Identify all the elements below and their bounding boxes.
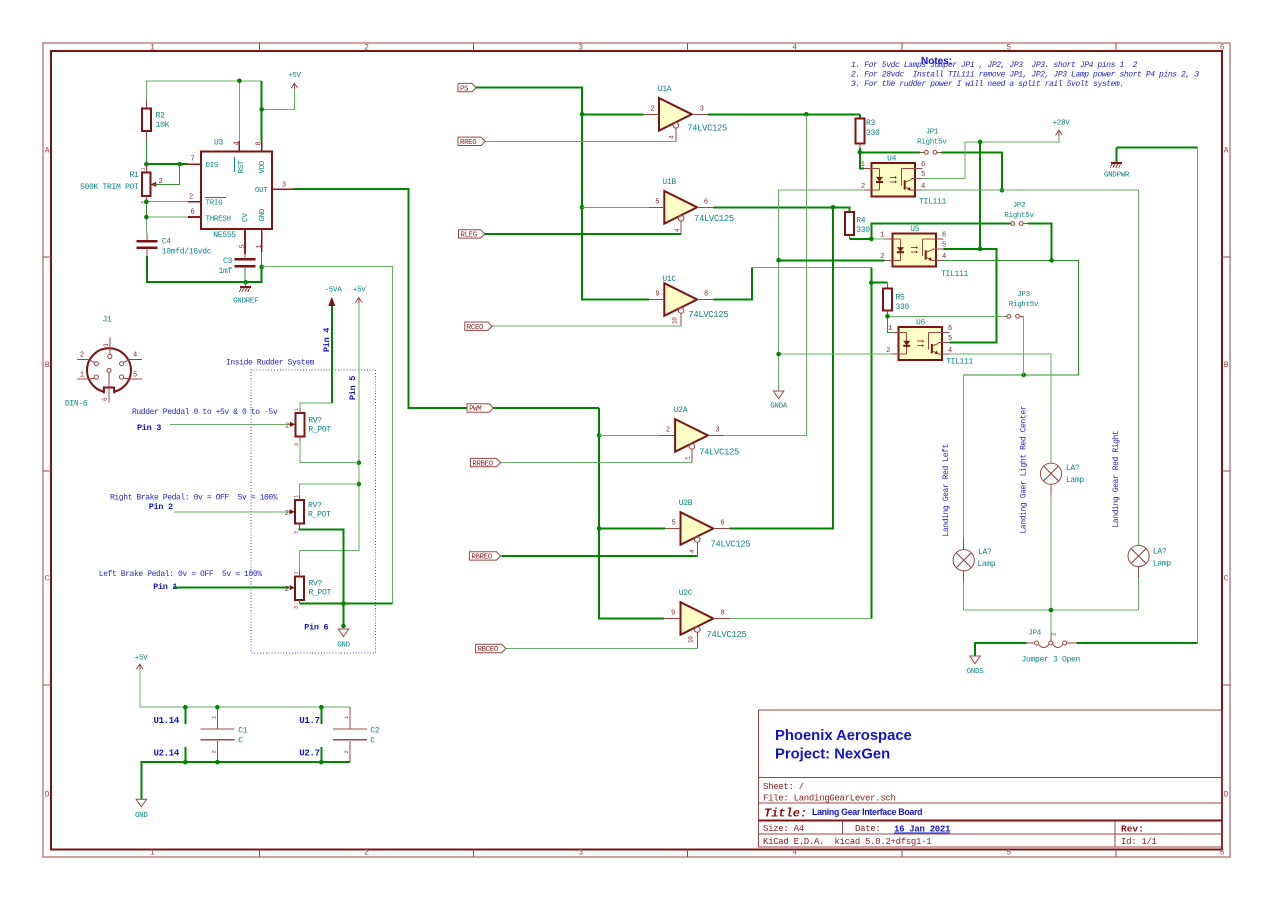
junction GNDA U5 xyxy=(776,258,781,263)
lamp LA? left xyxy=(953,375,996,610)
svg-text:1mf: 1mf xyxy=(218,267,232,276)
svg-text:A: A xyxy=(45,147,50,156)
svg-text:GND: GND xyxy=(259,208,267,221)
power +28V xyxy=(1053,120,1071,137)
svg-text:7: 7 xyxy=(191,156,195,164)
wire JP2 to U5 pin4 xyxy=(1028,224,1052,261)
svg-text:U1.14: U1.14 xyxy=(153,716,179,726)
title block xyxy=(759,710,1223,847)
hier label RREG xyxy=(458,137,485,145)
svg-text:R1: R1 xyxy=(129,171,139,180)
wire U2A out xyxy=(724,114,806,435)
svg-text:2: 2 xyxy=(189,194,193,202)
svg-text:2: 2 xyxy=(861,183,865,191)
svg-text:Lamp: Lamp xyxy=(1066,476,1085,485)
svg-text:2: 2 xyxy=(364,849,369,858)
svg-text:Pin 5: Pin 5 xyxy=(348,376,358,400)
svg-text:R_POT: R_POT xyxy=(308,426,331,435)
wire U2B input xyxy=(599,528,665,530)
wire GNDPWR to JP4 xyxy=(1117,148,1198,643)
wire lamps bottom rail xyxy=(964,610,1139,637)
notes text block xyxy=(851,56,1199,89)
svg-text:4: 4 xyxy=(133,352,137,360)
wire -5VA to pot1 xyxy=(331,306,333,403)
svg-text:330: 330 xyxy=(856,226,870,235)
trimmer R1 500K xyxy=(80,164,163,204)
junction DIS-R2-R1 xyxy=(144,162,149,167)
jumper JP2 xyxy=(1004,202,1034,225)
junction C3 gnd xyxy=(259,265,264,270)
lamp LA? right xyxy=(1128,534,1171,610)
power GNDA xyxy=(770,391,788,411)
dotted box Inside Rudder System xyxy=(251,370,376,653)
svg-text:U4: U4 xyxy=(887,155,897,164)
jumper JP4 xyxy=(1022,630,1081,665)
wire C4 to gnd rail xyxy=(147,256,262,282)
wire U2B out xyxy=(730,207,833,528)
svg-text:3: 3 xyxy=(578,849,583,858)
svg-text:4: 4 xyxy=(792,44,797,53)
svg-text:2: 2 xyxy=(651,106,655,114)
svg-text:C4: C4 xyxy=(162,238,172,247)
svg-text:RST: RST xyxy=(238,160,246,173)
svg-text:U1B: U1B xyxy=(662,178,676,187)
label U2.7 xyxy=(299,747,321,762)
junction GNDREF tap xyxy=(243,280,248,285)
svg-text:Laning Gear Interface Board: Laning Gear Interface Board xyxy=(812,807,922,817)
svg-text:GNDS: GNDS xyxy=(967,668,985,676)
wire U5col to R5 xyxy=(871,282,887,284)
capacitor C1 xyxy=(200,707,247,762)
svg-text:+5V: +5V xyxy=(135,655,148,663)
junction 555 VDD +5V xyxy=(259,107,264,112)
wire Pin2 to pot2 wiper xyxy=(174,511,290,513)
frame column ticks xyxy=(258,43,260,51)
svg-text:THRESH: THRESH xyxy=(206,215,231,223)
buffer U2A 74LVC125 xyxy=(659,406,739,463)
wire 555 top net xyxy=(146,81,294,141)
svg-text:Left Brake Pedal: 0v = OFF 5v: Left Brake Pedal: 0v = OFF 5v = 100% xyxy=(99,570,262,579)
wire U5 column vertical xyxy=(870,267,872,618)
svg-text:R4: R4 xyxy=(856,217,866,226)
capacitor C2 xyxy=(333,707,380,762)
svg-text:Pin 2: Pin 2 xyxy=(149,502,173,512)
hier label RBREO xyxy=(469,552,500,560)
wire R3 bottom net xyxy=(860,148,920,169)
svg-text:2. For 28vdc Install TIL111 r: 2. For 28vdc Install TIL111 remove JP1, … xyxy=(851,71,1199,80)
svg-text:+5V: +5V xyxy=(353,287,366,295)
svg-text:Sheet: /: Sheet: / xyxy=(763,782,804,792)
svg-text:LA?: LA? xyxy=(1066,464,1080,473)
svg-text:U2B: U2B xyxy=(679,499,693,508)
wire U2A input xyxy=(599,434,659,436)
svg-text:R_POT: R_POT xyxy=(309,589,332,598)
svg-text:3: 3 xyxy=(294,531,300,534)
svg-text:74LVC125: 74LVC125 xyxy=(711,540,751,550)
wire R2 to DIS xyxy=(146,140,188,164)
svg-text:U1A: U1A xyxy=(658,85,672,94)
wire JP3 down xyxy=(1023,316,1025,375)
svg-text:6: 6 xyxy=(1220,44,1225,53)
svg-text:Id: 1/1: Id: 1/1 xyxy=(1121,837,1157,847)
junction PS U1A xyxy=(580,112,585,117)
svg-text:1. For 5vdc Lamps Jumper JP1 ,: 1. For 5vdc Lamps Jumper JP1 , JP2, JP3 … xyxy=(851,61,1138,70)
svg-text:U2.14: U2.14 xyxy=(153,749,179,759)
svg-text:J1: J1 xyxy=(103,316,113,325)
svg-text:5: 5 xyxy=(655,199,659,207)
svg-text:RV?: RV? xyxy=(308,417,322,426)
svg-text:74LVC125: 74LVC125 xyxy=(694,214,734,224)
junction PWM U2A xyxy=(597,433,602,438)
wire Pin1 to pot3 wiper xyxy=(173,587,289,589)
junction U4 pin4 column xyxy=(1000,188,1005,193)
svg-text:4: 4 xyxy=(233,142,241,146)
wire RBCEO net xyxy=(506,648,698,650)
wire +5V pots vertical xyxy=(300,303,359,571)
svg-text:U2A: U2A xyxy=(674,406,688,415)
wire U1C out to U5 column xyxy=(752,266,871,268)
power +5V (bottom) xyxy=(135,655,148,671)
svg-text:3. For the rudder power I will: 3. For the rudder power I will need a sp… xyxy=(851,80,1124,89)
label U1.14 xyxy=(153,707,185,726)
svg-text:File: LandingGearLever.sch: File: LandingGearLever.sch xyxy=(763,794,896,804)
svg-text:Right5v: Right5v xyxy=(1004,212,1034,220)
wire U1B input xyxy=(582,206,649,208)
junction pot2 top xyxy=(357,482,362,487)
buffer U2B 74LVC125 xyxy=(665,499,750,556)
svg-text:74LVC125: 74LVC125 xyxy=(688,310,728,320)
svg-text:C: C xyxy=(238,737,243,746)
svg-text:KiCad E.D.A. kicad 5.0.2+dfsg: KiCad E.D.A. kicad 5.0.2+dfsg1-1 xyxy=(763,837,931,847)
junction +28V column xyxy=(978,140,983,145)
lamp LA? center xyxy=(1040,463,1084,610)
svg-text:Landing Gaer Light Red Center: Landing Gaer Light Red Center xyxy=(1020,405,1029,533)
svg-text:9: 9 xyxy=(671,610,675,618)
svg-text:Inside Rudder System: Inside Rudder System xyxy=(226,359,315,368)
svg-text:5: 5 xyxy=(948,335,952,343)
svg-text:RLEG: RLEG xyxy=(461,232,477,240)
hier label PWM xyxy=(467,404,493,412)
junction R5 JP3 U6 xyxy=(885,314,890,319)
wire R5 bottom net xyxy=(888,315,1005,333)
svg-text:8: 8 xyxy=(721,610,725,618)
svg-text:DIN-6: DIN-6 xyxy=(65,400,88,409)
wire U1A input xyxy=(582,113,643,115)
svg-text:6: 6 xyxy=(720,520,724,528)
wire U5 pin2 GNDA net xyxy=(779,259,885,261)
svg-text:1: 1 xyxy=(80,372,84,380)
label U2.14 xyxy=(153,747,185,762)
svg-text:330: 330 xyxy=(866,129,880,138)
svg-text:R_POT: R_POT xyxy=(308,511,331,520)
svg-text:8: 8 xyxy=(256,142,264,146)
wire U2C out xyxy=(730,618,871,620)
junction U5 pin5 xyxy=(978,247,983,252)
svg-text:1: 1 xyxy=(294,408,300,411)
wire U4 pin4 to right lamp xyxy=(922,190,1139,534)
wire pot1 bottom xyxy=(300,441,359,463)
svg-text:2: 2 xyxy=(343,750,350,753)
svg-text:JP3: JP3 xyxy=(1017,291,1030,299)
wire pot2 top xyxy=(300,484,359,495)
wire RLEG net xyxy=(485,233,682,235)
svg-text:RV?: RV? xyxy=(308,502,322,511)
wire THRESH net xyxy=(146,217,188,233)
svg-text:Pin 3: Pin 3 xyxy=(137,423,161,433)
wire +28V net xyxy=(922,137,1059,249)
resistor R3 xyxy=(855,114,880,148)
wire PS net xyxy=(476,88,650,300)
junction TRIG xyxy=(144,199,149,204)
resistor R4 xyxy=(845,207,871,239)
wire U6 pin2 GNDA net xyxy=(779,353,891,355)
buffer U1B 74LVC125 xyxy=(649,178,734,234)
buffer U1C 74LVC125 xyxy=(649,275,728,326)
junction rail U1.14 xyxy=(183,705,188,710)
connector M1 DIN-6 xyxy=(65,316,142,409)
svg-text:1: 1 xyxy=(256,245,264,249)
svg-text:2: 2 xyxy=(285,586,289,594)
resistor R5 xyxy=(883,283,910,315)
svg-text:10: 10 xyxy=(687,636,694,643)
svg-text:500K TRIM POT: 500K TRIM POT xyxy=(80,183,139,192)
svg-text:R2: R2 xyxy=(156,112,166,121)
junction THRESH xyxy=(144,215,149,220)
buffer U1A 74LVC125 xyxy=(643,85,727,141)
wire R1 wiper to DIS xyxy=(154,164,180,184)
junction 555 RST xyxy=(237,79,242,84)
power GNDREF xyxy=(233,282,258,305)
svg-text:Lamp: Lamp xyxy=(1153,560,1172,569)
svg-text:2: 2 xyxy=(364,44,369,53)
svg-text:Phoenix Aerospace: Phoenix Aerospace xyxy=(775,728,912,744)
svg-text:16 Jan 2021: 16 Jan 2021 xyxy=(894,825,951,835)
svg-text:3: 3 xyxy=(294,606,300,609)
svg-text:2: 2 xyxy=(285,423,289,431)
svg-text:C: C xyxy=(1224,575,1229,584)
svg-text:10K: 10K xyxy=(156,121,170,130)
svg-text:B: B xyxy=(1224,361,1229,370)
svg-text:6: 6 xyxy=(942,232,946,240)
wire U5 pin5 net xyxy=(943,249,996,343)
svg-text:CV: CV xyxy=(242,213,250,222)
wire RREG net xyxy=(485,140,676,142)
svg-text:5: 5 xyxy=(133,372,137,380)
hier label RBCEO xyxy=(476,644,506,652)
hier label RCEO xyxy=(465,322,492,330)
capacitor C4 10mfd/16vdc xyxy=(137,233,212,257)
wire gnd bottom rail xyxy=(141,762,350,799)
svg-text:2: 2 xyxy=(211,750,218,753)
svg-text:+5V: +5V xyxy=(288,72,301,80)
wire JP4 right to GNDPWR column xyxy=(1076,642,1197,644)
svg-text:U1.7: U1.7 xyxy=(299,716,319,726)
junction DIS wiper xyxy=(177,162,182,167)
svg-text:Right Brake Pedal: 0v = OFF 5: Right Brake Pedal: 0v = OFF 5v = 100% xyxy=(110,494,278,503)
svg-text:RBREO: RBREO xyxy=(471,554,492,562)
svg-text:C1: C1 xyxy=(238,727,248,736)
svg-text:3: 3 xyxy=(282,181,286,189)
wire GNDA vertical xyxy=(778,190,780,391)
svg-text:6: 6 xyxy=(1220,849,1225,858)
svg-text:74LVC125: 74LVC125 xyxy=(687,124,727,134)
svg-text:Rev:: Rev: xyxy=(1121,824,1144,835)
wire TRIG net xyxy=(146,202,188,217)
junction GND pots xyxy=(341,624,346,629)
svg-text:B: B xyxy=(45,361,50,370)
svg-text:Lamp: Lamp xyxy=(977,560,996,569)
svg-text:74LVC125: 74LVC125 xyxy=(707,630,747,640)
svg-text:C3: C3 xyxy=(223,257,233,266)
junction gnd U2.7 xyxy=(319,760,324,765)
frame row ticks xyxy=(43,256,51,258)
junction U1A out xyxy=(804,112,809,117)
svg-text:1: 1 xyxy=(294,572,300,575)
svg-text:2: 2 xyxy=(666,427,670,435)
wire U1B out xyxy=(713,207,849,212)
svg-text:-5VA: -5VA xyxy=(325,287,343,295)
junction PWM U2B xyxy=(597,526,602,531)
svg-text:D: D xyxy=(45,791,50,800)
svg-text:GND: GND xyxy=(135,812,148,820)
svg-text:1: 1 xyxy=(150,849,155,858)
svg-text:6: 6 xyxy=(191,209,195,217)
svg-text:U2C: U2C xyxy=(679,589,693,598)
power GNDPWR xyxy=(1104,148,1130,180)
svg-text:4: 4 xyxy=(792,849,797,858)
svg-text:1: 1 xyxy=(294,495,300,498)
svg-text:GNDA: GNDA xyxy=(770,403,788,411)
buffer U2C 74LVC125 xyxy=(664,589,746,649)
svg-text:1: 1 xyxy=(880,232,884,240)
wire pot2 bottom to GND xyxy=(300,529,344,626)
svg-text:10mfd/16vdc: 10mfd/16vdc xyxy=(162,248,212,257)
svg-text:Landing Gear Red Right: Landing Gear Red Right xyxy=(1112,431,1121,528)
svg-text:TIL111: TIL111 xyxy=(919,198,947,207)
opto U5 TIL111 xyxy=(880,225,968,279)
svg-text:U5: U5 xyxy=(910,225,920,234)
svg-text:Right5v: Right5v xyxy=(1009,301,1039,309)
svg-text:3: 3 xyxy=(294,443,300,446)
svg-text:RBCEO: RBCEO xyxy=(478,646,499,654)
svg-text:9: 9 xyxy=(656,291,660,299)
wire pot3 bottom xyxy=(300,603,393,605)
svg-text:Jumper 3 Open: Jumper 3 Open xyxy=(1022,656,1081,665)
svg-text:DIS: DIS xyxy=(206,162,219,170)
wire 555 pin1 to C3 rail xyxy=(245,252,262,282)
svg-text:5: 5 xyxy=(1006,44,1011,53)
wire U6 pin4 to center lamp xyxy=(949,354,1051,463)
svg-text:Size: A4: Size: A4 xyxy=(763,824,804,834)
junction pot1 bottom xyxy=(357,460,362,465)
svg-text:2: 2 xyxy=(80,352,84,360)
svg-text:JP1: JP1 xyxy=(925,129,938,137)
svg-text:3: 3 xyxy=(578,44,583,53)
wire RRBEO net xyxy=(501,462,692,464)
svg-text:8: 8 xyxy=(704,291,708,299)
svg-text:330: 330 xyxy=(896,303,910,312)
junction R5 top xyxy=(869,280,874,285)
svg-text:GNDREF: GNDREF xyxy=(233,298,258,306)
wire U4 pin2 GNDA net xyxy=(779,189,864,191)
svg-text:Right5v: Right5v xyxy=(917,139,947,147)
svg-text:A: A xyxy=(1224,147,1229,156)
svg-text:Pin 4: Pin 4 xyxy=(322,328,332,352)
svg-text:RCEO: RCEO xyxy=(467,324,484,332)
jumper JP3 xyxy=(1005,291,1039,318)
wire JP2 net xyxy=(871,224,1010,239)
svg-text:1: 1 xyxy=(888,325,892,333)
svg-text:Landing Gear Red Left: Landing Gear Red Left xyxy=(942,444,951,536)
opto U4 TIL111 xyxy=(861,155,947,207)
svg-text:3: 3 xyxy=(715,427,719,435)
svg-text:GNDPWR: GNDPWR xyxy=(1104,172,1130,180)
junction pot3 line xyxy=(341,601,346,606)
power -5VA xyxy=(325,287,343,307)
potentiometer RV? pot2 xyxy=(285,495,331,534)
svg-text:1: 1 xyxy=(141,168,147,171)
svg-text:10: 10 xyxy=(672,317,679,324)
ic U3 NE555 xyxy=(188,139,294,255)
svg-text:6: 6 xyxy=(921,161,925,169)
svg-text:VDD: VDD xyxy=(259,160,267,173)
wire +5V top rail xyxy=(140,670,350,707)
svg-text:3: 3 xyxy=(700,106,704,114)
svg-text:R5: R5 xyxy=(896,294,906,303)
svg-text:6: 6 xyxy=(704,199,708,207)
junction rail U1.7 xyxy=(319,705,324,710)
potentiometer RV? pot3 xyxy=(285,571,332,609)
svg-text:1: 1 xyxy=(861,161,865,169)
svg-text:2: 2 xyxy=(159,178,163,186)
power GNDS xyxy=(967,656,985,676)
svg-text:U1C: U1C xyxy=(662,275,676,284)
power GND (bottom) xyxy=(135,799,148,820)
wire 555 OUT to PWM xyxy=(294,189,599,408)
junction R4 U5 JP2 xyxy=(869,237,874,242)
svg-text:4: 4 xyxy=(921,183,925,191)
svg-text:JP4: JP4 xyxy=(1028,630,1041,638)
svg-text:LA?: LA? xyxy=(978,548,992,557)
wire JP4 left to GNDS xyxy=(975,643,1027,656)
svg-text:1: 1 xyxy=(150,44,155,53)
svg-text:LA?: LA? xyxy=(1153,548,1167,557)
svg-text:C: C xyxy=(45,575,50,584)
jumper JP1 xyxy=(917,129,947,155)
svg-text:OUT: OUT xyxy=(255,187,268,195)
svg-text:C: C xyxy=(370,737,375,746)
wire R4 bottom to U5 pin1 xyxy=(849,238,884,240)
svg-text:2: 2 xyxy=(285,510,289,518)
svg-text:5: 5 xyxy=(239,245,247,249)
power +5V (pots) xyxy=(353,287,366,304)
svg-text:GND: GND xyxy=(337,642,350,650)
svg-text:+28V: +28V xyxy=(1053,120,1071,128)
svg-text:Date:: Date: xyxy=(855,824,881,834)
svg-text:RV?: RV? xyxy=(309,580,323,589)
svg-text:U6: U6 xyxy=(916,319,926,328)
svg-text:PWM: PWM xyxy=(469,406,481,414)
svg-text:TRIG: TRIG xyxy=(206,199,224,207)
wire C3 to pots net xyxy=(262,266,393,603)
svg-text:Rudder Peddal 0 to +5v & 0 to: Rudder Peddal 0 to +5v & 0 to -5v xyxy=(132,408,278,417)
junction U5 pin4 JP2 xyxy=(1049,258,1054,263)
svg-text:PS: PS xyxy=(460,85,469,93)
svg-text:JP2: JP2 xyxy=(1013,202,1026,210)
svg-text:Pin 6: Pin 6 xyxy=(304,623,328,633)
wire Pin3 to pot1 wiper xyxy=(170,423,290,425)
power +5V (555) xyxy=(288,72,301,89)
